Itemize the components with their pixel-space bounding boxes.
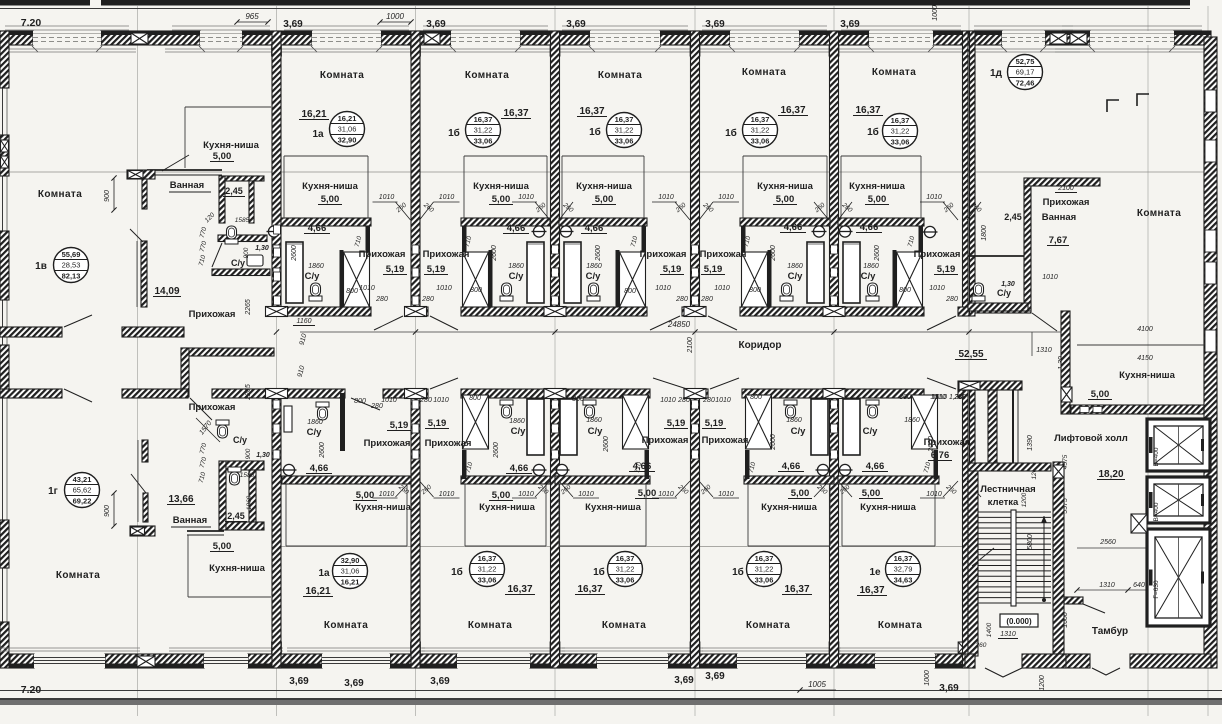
svg-text:7.20: 7.20 bbox=[21, 684, 42, 696]
svg-text:1010: 1010 bbox=[718, 194, 734, 201]
svg-text:16,37: 16,37 bbox=[503, 108, 528, 119]
1v hall partial wall bbox=[142, 179, 147, 209]
svg-text:33,06: 33,06 bbox=[755, 576, 774, 585]
svg-text:16,37: 16,37 bbox=[478, 554, 497, 563]
svg-text:16,37: 16,37 bbox=[579, 106, 604, 117]
svg-text:1860: 1860 bbox=[246, 495, 253, 510]
svg-text:2600: 2600 bbox=[319, 442, 326, 459]
svg-text:5,19: 5,19 bbox=[427, 264, 446, 275]
svg-text:1010: 1010 bbox=[1042, 274, 1058, 281]
svg-text:965: 965 bbox=[245, 12, 259, 21]
elevators bbox=[1147, 419, 1210, 471]
svg-text:Прихожая: Прихожая bbox=[359, 249, 406, 260]
svg-text:Прихожая: Прихожая bbox=[189, 309, 236, 320]
svg-text:1010: 1010 bbox=[439, 194, 455, 201]
svg-text:16,37: 16,37 bbox=[755, 554, 774, 563]
svg-text:Кухня-ниша: Кухня-ниша bbox=[355, 502, 411, 513]
unit divider walls bottom row bbox=[272, 389, 281, 668]
svg-text:Кухня-ниша: Кухня-ниша bbox=[479, 502, 535, 513]
svg-text:5,00: 5,00 bbox=[356, 490, 375, 501]
svg-text:Прихожая: Прихожая bbox=[364, 438, 411, 449]
svg-text:Комната: Комната bbox=[872, 67, 916, 78]
svg-text:5,19: 5,19 bbox=[428, 418, 447, 429]
svg-text:16,21: 16,21 bbox=[301, 109, 326, 120]
svg-text:1860: 1860 bbox=[307, 419, 323, 426]
svg-text:5,19: 5,19 bbox=[937, 264, 956, 275]
svg-text:1е: 1е bbox=[869, 567, 881, 578]
svg-text:900: 900 bbox=[104, 190, 111, 202]
svg-text:33,06: 33,06 bbox=[891, 138, 910, 147]
svg-text:33,06: 33,06 bbox=[474, 137, 493, 146]
svg-text:С/у: С/у bbox=[233, 435, 247, 445]
svg-text:3,69: 3,69 bbox=[674, 675, 694, 686]
svg-text:1010: 1010 bbox=[658, 491, 674, 498]
longitudinal axis line top half bbox=[10, 171, 1204, 173]
svg-text:2600: 2600 bbox=[491, 245, 498, 262]
svg-text:1005: 1005 bbox=[808, 680, 826, 689]
svg-text:3,69: 3,69 bbox=[705, 19, 725, 30]
svg-text:31,06: 31,06 bbox=[338, 125, 357, 134]
svg-text:13,66: 13,66 bbox=[168, 494, 193, 505]
svg-text:1000: 1000 bbox=[386, 12, 404, 21]
1v bottom wall with door bbox=[0, 327, 62, 337]
flat 1d (top-right) bbox=[1008, 55, 1043, 90]
svg-text:800: 800 bbox=[469, 395, 481, 402]
vent boxes in top wall bbox=[131, 33, 148, 44]
svg-text:2600: 2600 bbox=[493, 442, 500, 459]
svg-text:Комната: Комната bbox=[878, 620, 922, 631]
svg-text:клетка: клетка bbox=[988, 497, 1019, 508]
bottom grey band bbox=[0, 698, 1222, 705]
svg-text:31,22: 31,22 bbox=[755, 565, 774, 574]
svg-text:16,21: 16,21 bbox=[305, 586, 330, 597]
svg-text:Тамбур: Тамбур bbox=[1092, 625, 1128, 637]
svg-text:4,66: 4,66 bbox=[860, 222, 879, 233]
svg-text:Комната: Комната bbox=[38, 189, 82, 200]
svg-text:1010: 1010 bbox=[433, 397, 449, 404]
svg-text:1160: 1160 bbox=[296, 318, 311, 325]
svg-text:С/у: С/у bbox=[791, 426, 807, 437]
svg-text:Прихожая: Прихожая bbox=[1043, 197, 1090, 208]
svg-text:16,37: 16,37 bbox=[894, 554, 913, 563]
svg-text:1г: 1г bbox=[48, 486, 58, 497]
1g lower pier with vent bbox=[130, 526, 155, 536]
svg-text:4575: 4575 bbox=[1062, 454, 1069, 469]
svg-text:Кухня-ниша: Кухня-ниша bbox=[757, 181, 813, 192]
svg-text:1,30: 1,30 bbox=[1001, 281, 1015, 288]
svg-text:1010: 1010 bbox=[718, 491, 734, 498]
svg-text:16,37: 16,37 bbox=[474, 115, 493, 124]
svg-text:2265: 2265 bbox=[245, 384, 252, 401]
svg-text:Комната: Комната bbox=[324, 620, 368, 631]
unit bottom row 1е walls bbox=[838, 476, 939, 484]
svg-text:Прихожая: Прихожая bbox=[702, 435, 749, 446]
svg-text:32,90: 32,90 bbox=[338, 136, 357, 145]
svg-text:3,69: 3,69 bbox=[430, 676, 450, 687]
svg-text:1000: 1000 bbox=[932, 5, 939, 21]
divider head vent boxes above bottom wall bbox=[272, 642, 282, 653]
svg-text:280: 280 bbox=[421, 296, 434, 303]
right thick divider top bbox=[963, 31, 969, 316]
svg-text:5,00: 5,00 bbox=[213, 151, 232, 162]
bottom right walls (tambour / exits) bbox=[965, 654, 975, 668]
svg-text:Кухня-ниша: Кухня-ниша bbox=[203, 140, 259, 151]
svg-text:Прихожая: Прихожая bbox=[425, 438, 472, 449]
svg-text:С/у: С/у bbox=[863, 426, 879, 437]
svg-text:31,22: 31,22 bbox=[616, 565, 635, 574]
svg-text:Кухня-ниша: Кухня-ниша bbox=[849, 181, 905, 192]
svg-text:1200: 1200 bbox=[1021, 492, 1028, 507]
divider vent boxes (white channels inside walls) bbox=[273, 245, 280, 254]
svg-text:1010: 1010 bbox=[926, 491, 942, 498]
svg-text:31,22: 31,22 bbox=[478, 565, 497, 574]
svg-text:1860: 1860 bbox=[786, 417, 802, 424]
svg-text:3,69: 3,69 bbox=[426, 19, 446, 30]
svg-text:1800: 1800 bbox=[981, 225, 988, 241]
svg-text:С/у: С/у bbox=[861, 271, 877, 282]
svg-text:2,45: 2,45 bbox=[225, 186, 243, 196]
svg-text:3,69: 3,69 bbox=[939, 683, 959, 694]
corridor bottom wall (bottom units top wall) bbox=[212, 389, 345, 398]
svg-text:3,69: 3,69 bbox=[289, 676, 309, 687]
divider head vent boxes on corridor walls bbox=[266, 307, 288, 317]
divider head vent boxes below top wall bbox=[272, 45, 282, 56]
svg-text:16,37: 16,37 bbox=[891, 116, 910, 125]
svg-text:1860: 1860 bbox=[509, 418, 525, 425]
svg-text:2600: 2600 bbox=[770, 434, 777, 451]
svg-text:1860: 1860 bbox=[904, 417, 920, 424]
svg-text:16,37: 16,37 bbox=[780, 105, 805, 116]
svg-text:16,37: 16,37 bbox=[751, 115, 770, 124]
bottom margin line bbox=[0, 690, 1222, 692]
svg-text:4,66: 4,66 bbox=[308, 223, 327, 234]
corridor top wall right part bbox=[975, 304, 1031, 313]
svg-text:Прихожая: Прихожая bbox=[640, 249, 687, 260]
svg-text:43,21: 43,21 bbox=[73, 475, 92, 484]
svg-text:1010: 1010 bbox=[660, 397, 676, 404]
svg-text:7,67: 7,67 bbox=[1049, 235, 1068, 246]
svg-text:Комната: Комната bbox=[598, 70, 642, 81]
svg-text:5,19: 5,19 bbox=[663, 264, 682, 275]
1v kitchen niche bbox=[185, 106, 271, 108]
svg-text:2100: 2100 bbox=[687, 337, 694, 354]
svg-text:1010: 1010 bbox=[381, 397, 397, 404]
svg-text:280: 280 bbox=[675, 296, 688, 303]
svg-text:1310: 1310 bbox=[1000, 631, 1016, 638]
svg-text:С/у: С/у bbox=[231, 258, 245, 268]
unit bottom row 1б walls bbox=[555, 476, 650, 484]
svg-text:16,21: 16,21 bbox=[341, 578, 360, 587]
svg-text:Комната: Комната bbox=[468, 620, 512, 631]
svg-text:260: 260 bbox=[975, 642, 987, 649]
1g room dim 900 bbox=[113, 493, 115, 526]
svg-text:1010: 1010 bbox=[715, 397, 731, 404]
svg-text:Прихожая: Прихожая bbox=[914, 249, 961, 260]
svg-text:5,00: 5,00 bbox=[492, 194, 511, 205]
svg-text:Комната: Комната bbox=[320, 70, 364, 81]
svg-text:3,69: 3,69 bbox=[283, 19, 303, 30]
svg-text:1310: 1310 bbox=[1099, 582, 1115, 589]
svg-text:640: 640 bbox=[1133, 582, 1145, 589]
unit bottom row 1б walls bbox=[744, 476, 834, 484]
svg-text:4100: 4100 bbox=[1137, 326, 1153, 333]
svg-text:1010: 1010 bbox=[518, 194, 534, 201]
top outer wall bbox=[0, 31, 33, 45]
svg-text:С/у: С/у bbox=[788, 271, 804, 282]
svg-text:280: 280 bbox=[375, 296, 388, 303]
svg-text:32,79: 32,79 bbox=[894, 565, 913, 574]
svg-text:1010: 1010 bbox=[379, 194, 395, 201]
svg-text:4,66: 4,66 bbox=[784, 222, 803, 233]
svg-text:900: 900 bbox=[245, 448, 252, 459]
svg-text:4150: 4150 bbox=[1137, 355, 1153, 362]
svg-text:2,45: 2,45 bbox=[227, 511, 245, 521]
svg-text:1010: 1010 bbox=[929, 285, 945, 292]
svg-text:С/у: С/у bbox=[305, 271, 321, 282]
svg-text:Комната: Комната bbox=[465, 70, 509, 81]
svg-text:С/у: С/у bbox=[307, 427, 323, 438]
grid axes bbox=[137, 6, 139, 716]
svg-text:3,69: 3,69 bbox=[344, 678, 364, 689]
svg-text:1860: 1860 bbox=[787, 263, 803, 270]
unit top row 1а walls bbox=[281, 218, 371, 226]
svg-text:280: 280 bbox=[700, 296, 713, 303]
svg-text:5,19: 5,19 bbox=[667, 418, 686, 429]
svg-text:5,00: 5,00 bbox=[776, 194, 795, 205]
svg-text:5,00: 5,00 bbox=[638, 488, 657, 499]
svg-text:Прихожая: Прихожая bbox=[423, 249, 470, 260]
vent box bottom wall bbox=[137, 656, 155, 667]
svg-text:31,22: 31,22 bbox=[615, 126, 634, 135]
svg-text:1010: 1010 bbox=[926, 194, 942, 201]
svg-text:5,00: 5,00 bbox=[791, 488, 810, 499]
svg-text:280: 280 bbox=[370, 403, 383, 410]
1d hall/bath walls bbox=[1024, 178, 1100, 186]
svg-text:55,69: 55,69 bbox=[62, 250, 81, 259]
svg-text:3,69: 3,69 bbox=[566, 19, 586, 30]
svg-text:2,45: 2,45 bbox=[1004, 212, 1022, 222]
svg-text:Кухня-ниша: Кухня-ниша bbox=[576, 181, 632, 192]
corridor top wall (top units bottom wall) bbox=[272, 307, 371, 316]
svg-text:800: 800 bbox=[470, 287, 482, 294]
svg-text:800: 800 bbox=[749, 287, 761, 294]
svg-text:16,37: 16,37 bbox=[855, 105, 880, 116]
svg-text:82,13: 82,13 bbox=[62, 272, 81, 281]
svg-text:16,37: 16,37 bbox=[784, 584, 809, 595]
svg-text:Ванная: Ванная bbox=[170, 180, 204, 191]
unit bottom row 1а walls bbox=[282, 476, 411, 484]
svg-text:1200: 1200 bbox=[1039, 675, 1046, 691]
svg-text:1390: 1390 bbox=[1027, 435, 1034, 451]
svg-text:6,76: 6,76 bbox=[931, 450, 950, 461]
svg-text:С/у: С/у bbox=[511, 426, 527, 437]
svg-text:4,66: 4,66 bbox=[510, 463, 529, 474]
svg-text:Кухня-ниша: Кухня-ниша bbox=[761, 502, 817, 513]
svg-text:1010: 1010 bbox=[658, 194, 674, 201]
svg-text:4,66: 4,66 bbox=[585, 223, 604, 234]
svg-text:1400: 1400 bbox=[986, 622, 993, 637]
svg-text:1а: 1а bbox=[318, 568, 330, 579]
svg-text:Прихожая: Прихожая bbox=[924, 437, 971, 448]
right thick divider bottom bbox=[963, 389, 969, 668]
svg-text:2600: 2600 bbox=[874, 245, 881, 262]
unit top row 1б walls bbox=[838, 218, 924, 226]
svg-text:2600: 2600 bbox=[595, 245, 602, 262]
svg-text:1в: 1в bbox=[35, 261, 47, 272]
svg-text:Кухня-ниша: Кухня-ниша bbox=[1119, 370, 1175, 381]
svg-text:1010: 1010 bbox=[439, 491, 455, 498]
top margin line bbox=[0, 8, 1190, 10]
right section kitchen-niche bbox=[1061, 311, 1070, 414]
svg-text:1860: 1860 bbox=[863, 263, 879, 270]
svg-text:65,62: 65,62 bbox=[73, 486, 92, 495]
svg-text:33,06: 33,06 bbox=[478, 576, 497, 585]
svg-text:1б: 1б bbox=[593, 566, 605, 578]
staircase right wall bbox=[1053, 462, 1064, 654]
lobby walls left of corridor bbox=[181, 348, 274, 356]
svg-text:69,22: 69,22 bbox=[73, 497, 92, 506]
svg-text:4,66: 4,66 bbox=[782, 461, 801, 472]
1g bathroom walls bbox=[219, 461, 226, 530]
svg-text:2560: 2560 bbox=[1099, 539, 1116, 546]
svg-text:2600: 2600 bbox=[770, 245, 777, 262]
left outer wall : thin window lines with hatched piers bbox=[2, 31, 4, 666]
svg-text:1010: 1010 bbox=[578, 491, 594, 498]
svg-text:1010: 1010 bbox=[359, 285, 375, 292]
svg-text:1б: 1б bbox=[448, 127, 460, 139]
svg-text:4,66: 4,66 bbox=[507, 223, 526, 234]
svg-text:800: 800 bbox=[346, 288, 358, 295]
svg-text:1а: 1а bbox=[312, 129, 324, 140]
svg-text:Ванная: Ванная bbox=[1042, 212, 1076, 223]
svg-text:5,00: 5,00 bbox=[862, 488, 881, 499]
svg-text:Кухня-ниша: Кухня-ниша bbox=[860, 502, 916, 513]
svg-text:2600: 2600 bbox=[291, 245, 298, 262]
svg-text:1585: 1585 bbox=[235, 217, 250, 224]
top sheet band bbox=[0, 0, 90, 6]
svg-text:Комната: Комната bbox=[56, 570, 100, 581]
svg-text:(0.000): (0.000) bbox=[1006, 617, 1032, 626]
svg-text:1860: 1860 bbox=[586, 263, 602, 270]
unit bottom row 1б walls bbox=[461, 476, 550, 484]
svg-text:280: 280 bbox=[702, 397, 715, 404]
svg-text:800: 800 bbox=[354, 398, 366, 405]
svg-text:1000: 1000 bbox=[924, 670, 931, 686]
svg-text:1б: 1б bbox=[732, 566, 744, 578]
svg-text:800: 800 bbox=[572, 396, 584, 403]
svg-text:280: 280 bbox=[677, 397, 690, 404]
svg-text:5,19: 5,19 bbox=[704, 264, 723, 275]
svg-text:Прихожая: Прихожая bbox=[642, 435, 689, 446]
svg-text:5800: 5800 bbox=[1027, 534, 1034, 550]
svg-text:1860: 1860 bbox=[508, 263, 524, 270]
svg-text:72,46: 72,46 bbox=[1016, 79, 1035, 88]
1v room dim 900 bbox=[113, 178, 115, 210]
unit top row 1б walls bbox=[559, 218, 647, 226]
svg-text:5,00: 5,00 bbox=[492, 490, 511, 501]
svg-text:1010: 1010 bbox=[655, 285, 671, 292]
svg-text:280: 280 bbox=[419, 397, 432, 404]
svg-text:Ванная: Ванная bbox=[173, 515, 207, 526]
1d corner marks bbox=[1107, 100, 1119, 112]
svg-text:18,20: 18,20 bbox=[1098, 469, 1123, 480]
svg-text:Коридор: Коридор bbox=[738, 340, 781, 351]
svg-text:800: 800 bbox=[624, 288, 636, 295]
svg-text:3,69: 3,69 bbox=[705, 671, 725, 682]
svg-text:5,19: 5,19 bbox=[386, 264, 405, 275]
svg-text:5,00: 5,00 bbox=[213, 541, 232, 552]
svg-text:16,37: 16,37 bbox=[615, 115, 634, 124]
svg-text:4,66: 4,66 bbox=[633, 461, 652, 472]
tambour upper-left wall stub and door bbox=[1064, 597, 1083, 604]
svg-text:1б: 1б bbox=[589, 126, 601, 138]
svg-text:800: 800 bbox=[899, 287, 911, 294]
svg-text:16,37: 16,37 bbox=[507, 584, 532, 595]
svg-text:Прихожая: Прихожая bbox=[700, 249, 747, 260]
svg-text:1010: 1010 bbox=[379, 491, 395, 498]
svg-text:4,66: 4,66 bbox=[866, 461, 885, 472]
svg-text:33,06: 33,06 bbox=[751, 137, 770, 146]
svg-text:900: 900 bbox=[243, 247, 250, 258]
svg-text:В=400: В=400 bbox=[1153, 502, 1160, 521]
svg-text:Комната: Комната bbox=[746, 620, 790, 631]
svg-text:280: 280 bbox=[945, 296, 958, 303]
svg-text:52,55: 52,55 bbox=[958, 349, 983, 360]
svg-text:31,06: 31,06 bbox=[341, 567, 360, 576]
svg-text:32,90: 32,90 bbox=[341, 556, 360, 565]
svg-text:7.20: 7.20 bbox=[21, 17, 42, 29]
svg-text:С/у: С/у bbox=[997, 288, 1011, 298]
svg-text:800: 800 bbox=[750, 394, 762, 401]
svg-text:1б: 1б bbox=[867, 126, 879, 138]
svg-text:1,30: 1,30 bbox=[256, 452, 270, 459]
svg-text:14,09: 14,09 bbox=[154, 286, 179, 297]
svg-text:Кухня-ниша: Кухня-ниша bbox=[302, 181, 358, 192]
svg-text:Комната: Комната bbox=[742, 67, 786, 78]
svg-text:1б: 1б bbox=[451, 566, 463, 578]
svg-text:16,37: 16,37 bbox=[616, 554, 635, 563]
svg-text:1д: 1д bbox=[990, 68, 1003, 79]
svg-text:В=400: В=400 bbox=[1153, 447, 1160, 466]
svg-text:34,63: 34,63 bbox=[894, 576, 913, 585]
svg-text:Комната: Комната bbox=[602, 620, 646, 631]
svg-text:5,00: 5,00 bbox=[321, 194, 340, 205]
svg-text:33,06: 33,06 bbox=[615, 137, 634, 146]
corridor to stair vestibule bbox=[958, 381, 1022, 390]
svg-text:33,06: 33,06 bbox=[616, 576, 635, 585]
svg-text:5,19: 5,19 bbox=[390, 420, 409, 431]
svg-text:69,17: 69,17 bbox=[1016, 68, 1035, 77]
svg-text:Кухня-ниша: Кухня-ниша bbox=[473, 181, 529, 192]
svg-text:16,21: 16,21 bbox=[338, 114, 357, 123]
right outer wall bbox=[1204, 37, 1217, 668]
1v bathroom walls bbox=[127, 170, 155, 179]
svg-text:Комната: Комната bbox=[1137, 208, 1181, 219]
1g top wall with door bbox=[0, 389, 62, 398]
svg-text:1310: 1310 bbox=[1036, 347, 1052, 354]
svg-text:28,53: 28,53 bbox=[62, 261, 81, 270]
svg-text:1010: 1010 bbox=[436, 285, 452, 292]
svg-text:С/у: С/у bbox=[509, 271, 525, 282]
svg-text:1,30: 1,30 bbox=[255, 245, 269, 252]
unit top row 1б walls bbox=[461, 218, 550, 226]
longitudinal axis line bottom half bbox=[277, 546, 963, 548]
svg-text:Кухня-ниша: Кухня-ниша bbox=[585, 502, 641, 513]
svg-text:16,37: 16,37 bbox=[859, 585, 884, 596]
elevation mark 0.000 bbox=[1000, 614, 1038, 627]
svg-text:31,22: 31,22 bbox=[891, 127, 910, 136]
bottom outer wall bbox=[10, 654, 34, 668]
